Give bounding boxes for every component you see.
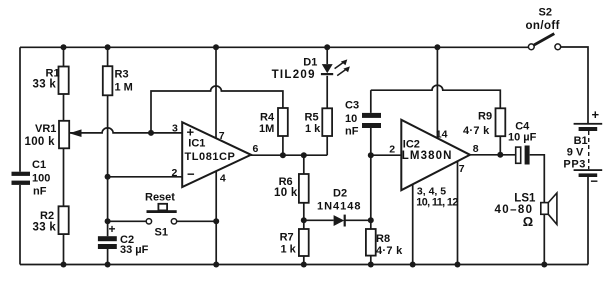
svg-text:R1: R1 bbox=[46, 67, 60, 79]
svg-text:IC1: IC1 bbox=[188, 138, 205, 150]
switch S1 (reset pushbutton) bbox=[146, 204, 177, 224]
wire C2 to bottom rail bbox=[107, 249, 109, 265]
resistor R4 bbox=[278, 108, 288, 136]
svg-text:B1: B1 bbox=[574, 135, 588, 147]
wire IC1 pin 2 line bbox=[108, 176, 183, 178]
wire C3 top stub bbox=[370, 90, 372, 113]
node pin3 feedback junction bbox=[148, 130, 154, 136]
svg-text:D2: D2 bbox=[333, 188, 347, 200]
wire left rail upper (to C1) bbox=[19, 47, 21, 171]
node bottom rail IC2 pin7 bbox=[455, 262, 461, 268]
wire R8 to bottom rail bbox=[370, 256, 372, 265]
svg-text:100: 100 bbox=[32, 173, 50, 185]
node top rail D1 bbox=[324, 44, 330, 50]
svg-text:nF: nF bbox=[345, 126, 359, 138]
resistor R8 bbox=[366, 229, 376, 256]
diode D2 bbox=[334, 215, 346, 227]
svg-text:S2: S2 bbox=[539, 6, 552, 18]
svg-text:TL081CP: TL081CP bbox=[185, 151, 236, 163]
svg-text:2: 2 bbox=[389, 144, 395, 156]
wire C3 bottom stub bbox=[370, 128, 372, 155]
svg-text:3, 4, 5: 3, 4, 5 bbox=[417, 185, 446, 197]
op-amp IC1 bbox=[182, 122, 251, 187]
wire D1 anode stub bbox=[326, 47, 328, 64]
svg-text:R9: R9 bbox=[478, 111, 492, 123]
resistor R1 bbox=[59, 67, 69, 95]
svg-text:PP3: PP3 bbox=[563, 159, 586, 171]
svg-text:100 k: 100 k bbox=[25, 136, 56, 148]
svg-text:10 µF: 10 µF bbox=[508, 132, 537, 144]
node R9 output bbox=[497, 152, 503, 158]
svg-text:4·7 k: 4·7 k bbox=[463, 125, 490, 137]
svg-text:4: 4 bbox=[220, 173, 226, 185]
node B (D2/R8) bbox=[368, 217, 374, 223]
wire R1 to VR1 bbox=[63, 94, 65, 121]
svg-text:TIL209: TIL209 bbox=[272, 69, 316, 81]
svg-text:1 M: 1 M bbox=[115, 81, 133, 93]
svg-text:R5: R5 bbox=[305, 111, 319, 123]
wire R9 bottom stub bbox=[499, 136, 501, 155]
node bottom rail R2 bbox=[61, 262, 67, 268]
wire IC2 pins 3,4,5,10,11,12 to bottom rail bbox=[412, 185, 414, 265]
node output R6 bbox=[301, 152, 307, 158]
svg-text:R6: R6 bbox=[279, 176, 293, 188]
svg-text:−: − bbox=[590, 174, 598, 189]
capacitor C3 bbox=[362, 113, 381, 128]
svg-text:7: 7 bbox=[219, 130, 225, 142]
battery B1 bbox=[574, 123, 603, 177]
svg-text:8: 8 bbox=[473, 143, 479, 155]
wire R3 top stub bbox=[107, 47, 109, 66]
wire R8 top stub bbox=[370, 220, 372, 229]
svg-text:33 k: 33 k bbox=[33, 222, 57, 234]
svg-text:LS1: LS1 bbox=[514, 192, 536, 204]
svg-text:R4: R4 bbox=[260, 111, 275, 123]
svg-text:S1: S1 bbox=[155, 226, 168, 238]
wiper arrow of VR1 bbox=[69, 129, 81, 137]
svg-text:+: + bbox=[109, 222, 116, 236]
svg-text:D1: D1 bbox=[303, 57, 317, 69]
svg-text:1M: 1M bbox=[259, 123, 274, 135]
LED D1 bbox=[321, 64, 333, 75]
resistor R3 bbox=[103, 66, 113, 95]
svg-text:R2: R2 bbox=[40, 210, 54, 222]
wire S1 right bbox=[177, 220, 217, 222]
svg-text:14: 14 bbox=[436, 129, 448, 141]
wire feedback C3 to R9 (hop over pin14 wire) bbox=[371, 85, 501, 108]
node top rail pin14 bbox=[434, 44, 440, 50]
svg-text:Ω: Ω bbox=[523, 214, 533, 229]
svg-text:1 k: 1 k bbox=[305, 123, 321, 135]
svg-text:10: 10 bbox=[345, 113, 357, 125]
resistor R9 bbox=[496, 108, 506, 136]
node bottom rail R8 bbox=[368, 262, 374, 268]
svg-text:10, 11, 12: 10, 11, 12 bbox=[416, 197, 458, 209]
node C3 bottom bbox=[368, 152, 374, 158]
svg-text:1N4148: 1N4148 bbox=[317, 200, 362, 212]
node S1 right junction bbox=[213, 218, 219, 224]
wire battery negative to bottom rail bbox=[587, 177, 589, 265]
node bottom rail R7 bbox=[301, 262, 307, 268]
svg-text:IC2: IC2 bbox=[403, 139, 420, 151]
node pin2 R3 junction bbox=[105, 174, 111, 180]
node bottom rail IC2 pins bbox=[410, 262, 416, 268]
svg-text:−: − bbox=[187, 167, 195, 182]
resistor R7 bbox=[299, 229, 309, 256]
wire VR1 to R2 bbox=[63, 148, 65, 206]
node top rail pin7 bbox=[213, 44, 219, 50]
resistor R5 bbox=[322, 108, 332, 136]
node bottom rail C2 bbox=[105, 262, 111, 268]
svg-text:2: 2 bbox=[172, 167, 178, 179]
svg-text:6: 6 bbox=[253, 143, 259, 155]
amplifier IC2 bbox=[401, 120, 470, 190]
wire C4 to speaker bbox=[530, 155, 545, 203]
svg-text:nF: nF bbox=[33, 186, 47, 198]
resistor R2 bbox=[59, 206, 69, 234]
wire S1 left bbox=[108, 220, 147, 222]
wire left rail lower (C1 to bottom) bbox=[19, 185, 21, 265]
svg-text:on/off: on/off bbox=[526, 20, 560, 32]
svg-text:R8: R8 bbox=[376, 233, 390, 245]
svg-text:3: 3 bbox=[172, 123, 178, 135]
svg-text:R3: R3 bbox=[115, 69, 129, 81]
svg-text:VR1: VR1 bbox=[35, 123, 56, 135]
resistor R6 bbox=[299, 174, 309, 203]
wire IC2 pin 7 to bottom rail bbox=[457, 161, 459, 264]
node bottom rail pin4 bbox=[213, 262, 219, 268]
svg-text:+: + bbox=[592, 107, 600, 122]
wire R4 bottom stub bbox=[282, 136, 284, 155]
wire IC1 pin 7 to top rail bbox=[215, 47, 217, 138]
switch S2 (on/off) bbox=[528, 34, 560, 50]
wire IC1 output line bbox=[251, 154, 327, 156]
wire R7 to bottom rail bbox=[303, 256, 305, 265]
svg-text:33 µF: 33 µF bbox=[120, 244, 149, 256]
wire VR1 wiper to IC1 pin 3 (hop over vertical) bbox=[69, 128, 182, 133]
node bottom rail LS1 bbox=[541, 262, 547, 268]
loudspeaker LS1 bbox=[541, 193, 557, 224]
wire IC1 pin 4 to bottom rail bbox=[215, 171, 217, 265]
svg-text:33 k: 33 k bbox=[33, 79, 57, 91]
wire C3 node to IC2 pin 2 bbox=[371, 154, 402, 156]
svg-text:C1: C1 bbox=[32, 159, 46, 171]
wire D2 to node B bbox=[346, 219, 371, 221]
wire feedback R4 to pin 3 node (hop over pin7 wire) bbox=[151, 86, 283, 133]
svg-text:10 k: 10 k bbox=[274, 187, 298, 199]
wire bottom rail bbox=[20, 264, 588, 266]
node top rail R1 bbox=[61, 44, 67, 50]
wire D1 cathode to R5 bbox=[326, 76, 328, 109]
svg-text:4·7 k: 4·7 k bbox=[376, 245, 403, 257]
potentiometer VR1 bbox=[59, 121, 69, 149]
capacitor C1 bbox=[12, 172, 31, 185]
wire R6 top stub bbox=[303, 155, 305, 174]
wire R5 bottom stub bbox=[326, 136, 328, 155]
wire top rail right segment to battery bbox=[561, 47, 588, 124]
wire IC2 output to C4 bbox=[470, 154, 516, 156]
node output R4 bbox=[280, 152, 286, 158]
svg-text:LM380N: LM380N bbox=[402, 150, 453, 162]
wire speaker to bottom rail bbox=[543, 214, 545, 264]
svg-text:C3: C3 bbox=[345, 100, 359, 112]
wire node B up to C3 node bbox=[370, 155, 372, 220]
svg-text:9 V: 9 V bbox=[567, 147, 584, 159]
wire R7 top stub bbox=[303, 220, 305, 229]
node S1 left junction bbox=[105, 218, 111, 224]
wire top rail bbox=[20, 46, 528, 48]
node top rail R3 bbox=[105, 44, 111, 50]
wire R6 to node A bbox=[303, 203, 305, 221]
wire R1 top stub bbox=[63, 47, 65, 66]
wire node A to D2 bbox=[304, 219, 334, 221]
node A (R6/R7/D2) bbox=[301, 217, 307, 223]
wire IC2 pin 14 to top rail bbox=[436, 47, 438, 138]
wire R2 to bottom rail bbox=[63, 234, 65, 264]
svg-text:R7: R7 bbox=[280, 232, 294, 244]
svg-text:C4: C4 bbox=[515, 120, 530, 132]
svg-text:1 k: 1 k bbox=[281, 243, 297, 255]
capacitor C2 bbox=[98, 236, 117, 249]
svg-text:7: 7 bbox=[459, 163, 465, 175]
capacitor C4 bbox=[516, 146, 530, 165]
LED D1 emission arrows bbox=[335, 59, 350, 75]
svg-text:Reset: Reset bbox=[145, 191, 175, 203]
wire R3 down to pin2 node and C2 bbox=[107, 95, 109, 236]
